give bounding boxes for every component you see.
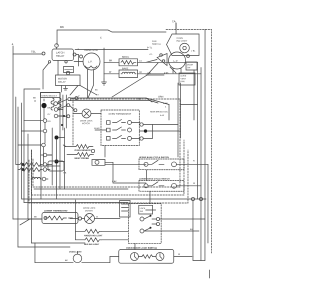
relay K1 box xyxy=(52,49,74,61)
wire thermostat bottom drop xyxy=(104,145,106,157)
clock motor left xyxy=(130,253,138,261)
svg-text:A-W: A-W xyxy=(160,114,164,117)
cooling fan terminal xyxy=(187,55,190,58)
lock pins right xyxy=(156,217,159,220)
svg-text:OVEN SENSOR: OVEN SENSOR xyxy=(74,150,90,152)
wire sensor leads xyxy=(65,146,77,154)
wire diagonal fan to selector xyxy=(80,85,97,95)
lock switch dashed box xyxy=(128,204,161,244)
lower thermostat box xyxy=(42,212,78,223)
door lock motor 2 xyxy=(84,213,94,223)
selector coil 1 xyxy=(51,98,54,110)
svg-text:W-BR: W-BR xyxy=(94,128,100,130)
right tick mark xyxy=(208,270,210,278)
svg-text:TBL: TBL xyxy=(31,49,36,53)
wire bottom resistor leads xyxy=(75,231,128,240)
wire bottom left run xyxy=(31,242,84,244)
selector stubs xyxy=(44,99,65,162)
left bus 6 xyxy=(27,134,29,219)
svg-text:A-BK: A-BK xyxy=(163,102,168,105)
relay K1 top pin xyxy=(55,44,59,48)
long wire 198 xyxy=(21,198,206,200)
clock leads xyxy=(138,256,155,258)
thermostat row 1 xyxy=(107,121,111,125)
svg-text:FAN: FAN xyxy=(152,40,157,43)
wire thermostat exits xyxy=(132,123,144,139)
drive motor M1 xyxy=(83,53,100,70)
wire right mid drop xyxy=(168,105,170,121)
oven light lamp xyxy=(73,254,82,263)
svg-text:BK: BK xyxy=(60,25,64,29)
svg-text:IND LIGHT: IND LIGHT xyxy=(177,41,188,43)
wire relay pin diagonal xyxy=(43,63,49,89)
lock contact 1 xyxy=(140,217,144,221)
lock contact 2 xyxy=(140,229,144,233)
svg-text:W: W xyxy=(96,216,98,218)
wire lock motor leads xyxy=(91,112,101,114)
svg-text:L-W: L-W xyxy=(147,73,151,75)
selector contact a xyxy=(54,102,58,106)
left resistor 2 xyxy=(20,167,43,171)
left coil 3 xyxy=(31,177,41,179)
wire thermostat left in xyxy=(95,129,107,131)
right dashed bus xyxy=(210,50,212,253)
svg-text:TA: TA xyxy=(172,20,176,24)
wire bus BR xyxy=(70,99,150,101)
svg-text:L-BK: L-BK xyxy=(112,181,117,183)
svg-text:RELAY: RELAY xyxy=(56,54,65,58)
wire relay pin down xyxy=(57,60,59,74)
svg-text:DOOR LOCK: DOOR LOCK xyxy=(83,208,96,210)
clock resistor xyxy=(142,255,153,259)
thermostat row 2 xyxy=(107,128,111,132)
svg-text:OVEN LIGHT: OVEN LIGHT xyxy=(69,251,82,253)
wire left drop to motor xyxy=(74,200,76,219)
relay coil box xyxy=(48,161,64,171)
broil resistor xyxy=(121,61,136,65)
wire long 189 xyxy=(34,188,128,190)
svg-text:LOWER THERMOSTAT: LOWER THERMOSTAT xyxy=(44,209,68,212)
bus junctions xyxy=(191,197,194,200)
oven sensor resistor 1 xyxy=(76,144,91,148)
wire left feed xyxy=(13,46,42,54)
lower thermostat resistor xyxy=(45,216,73,220)
switch box small xyxy=(64,66,74,72)
heat resistor bottom 2 xyxy=(85,238,101,242)
wire lamp right xyxy=(82,256,110,262)
lock switch inner box xyxy=(139,205,153,214)
wire resistor links xyxy=(46,164,52,179)
sensor terminal xyxy=(91,149,94,152)
wire fan triangle xyxy=(157,54,167,66)
selector label box xyxy=(41,92,61,97)
upper bake cycle switch row 1 xyxy=(139,159,184,170)
long wire 202 xyxy=(24,201,128,203)
svg-text:LOWER BAKE CYCLE SWITCH: LOWER BAKE CYCLE SWITCH xyxy=(139,178,170,181)
svg-text:UPPER BAKE CYCLE SWITCH: UPPER BAKE CYCLE SWITCH xyxy=(139,156,170,159)
clock motor right xyxy=(156,253,164,261)
node junction dot xyxy=(41,103,46,108)
wire top heat feed xyxy=(75,48,148,50)
motor left pin xyxy=(80,55,83,58)
svg-text:GRN: GRN xyxy=(158,96,164,99)
svg-text:P-TL: P-TL xyxy=(147,47,153,50)
svg-text:AMBER IND LIGHT: AMBER IND LIGHT xyxy=(84,234,103,237)
svg-text:OVEN SELECT: OVEN SELECT xyxy=(42,95,58,97)
selector contact f xyxy=(55,135,59,139)
selector right contacts xyxy=(68,98,71,101)
selector contact h xyxy=(54,159,58,163)
heat resistor bottom 1 xyxy=(85,229,101,233)
relay K1 left pin xyxy=(42,52,45,55)
lock motor 2 pins xyxy=(78,217,81,220)
right bus 5 xyxy=(192,201,194,257)
selector switch outline xyxy=(40,92,60,166)
bake unit box xyxy=(119,70,138,78)
selector vertical wires xyxy=(62,95,64,130)
wire lamp run xyxy=(35,243,73,263)
node L1 bus xyxy=(103,48,105,79)
wire top dashed to right bus xyxy=(166,30,212,51)
door lock motor M3 xyxy=(82,109,91,118)
left bus 3 xyxy=(17,107,19,247)
medium dashed frame xyxy=(31,140,184,195)
broil unit box xyxy=(119,59,138,66)
svg-text:L.P.: L.P. xyxy=(174,59,179,63)
right bus 1 xyxy=(196,62,198,199)
svg-text:LOCK: LOCK xyxy=(140,208,146,210)
svg-text:SW: SW xyxy=(187,67,190,69)
selector contact b xyxy=(54,108,58,112)
wire bake leads xyxy=(104,73,119,75)
right bus 4 xyxy=(207,164,209,243)
polygon feed xyxy=(175,23,177,34)
svg-text:MOTOR: MOTOR xyxy=(82,123,90,125)
anti-tip lamp xyxy=(180,43,190,53)
right info box 2 xyxy=(179,73,195,85)
svg-text:SWITCH: SWITCH xyxy=(152,44,161,46)
motor relay top pin xyxy=(66,71,69,74)
svg-text:L.P.: L.P. xyxy=(88,59,93,63)
left bus 4 xyxy=(20,103,22,198)
right bus 3 xyxy=(204,30,206,261)
svg-text:4-BK: 4-BK xyxy=(164,73,169,75)
svg-text:SW: SW xyxy=(140,211,143,213)
tall narrow box TOD xyxy=(120,201,131,218)
clock box xyxy=(119,250,174,264)
svg-text:MEAT PROBE: MEAT PROBE xyxy=(74,157,89,160)
selector contact d xyxy=(43,119,47,123)
switch arms xyxy=(57,99,67,103)
wire bus Y xyxy=(70,98,169,105)
selector contact e xyxy=(43,129,47,133)
wire box bottom drop xyxy=(61,85,63,92)
ground G2 xyxy=(64,86,68,90)
relay K1 bottom pins xyxy=(48,61,50,63)
oven thermostat dashed box xyxy=(101,110,139,146)
oven sensor resistor 2 xyxy=(77,152,92,156)
row2 exit wire xyxy=(184,185,201,187)
motor brushes xyxy=(85,66,97,68)
wire motor drop xyxy=(173,69,181,74)
big dashed frame xyxy=(33,99,180,187)
lower bake cycle switch row 2 xyxy=(139,181,184,192)
selector coil 2 xyxy=(58,98,61,110)
wire broil leads xyxy=(104,61,119,63)
relay K1 right pin xyxy=(73,53,76,56)
selector contact g xyxy=(42,143,46,147)
svg-text:FAN: FAN xyxy=(181,80,185,83)
left elbow wire xyxy=(24,89,40,203)
svg-text:OVEN: OVEN xyxy=(181,76,187,78)
svg-text:RED IND LIGHT: RED IND LIGHT xyxy=(84,244,100,246)
svg-text:BROIL: BROIL xyxy=(122,56,130,59)
outer dashed frame bottom xyxy=(29,150,188,203)
right bus 2 xyxy=(200,68,202,261)
selector wires inner xyxy=(43,108,45,164)
svg-text:OVEN THERMOSTAT: OVEN THERMOSTAT xyxy=(109,113,132,116)
left bus 1 xyxy=(12,54,14,219)
thermostat row 3 xyxy=(107,136,111,140)
fan terminals xyxy=(160,54,163,57)
svg-text:OVEN: OVEN xyxy=(177,38,184,40)
ground G1 xyxy=(102,79,107,85)
svg-text:BK: BK xyxy=(109,59,113,62)
thermostat right pins xyxy=(140,123,143,126)
motor relay box xyxy=(56,75,81,86)
svg-text:BAKE: BAKE xyxy=(122,67,129,70)
svg-text:HIGH SPEED FAN: HIGH SPEED FAN xyxy=(150,111,168,114)
wire TA drop xyxy=(175,23,177,29)
left bus 7 xyxy=(30,150,32,243)
wire lt feed xyxy=(28,218,42,220)
bake coil xyxy=(121,72,136,74)
svg-text:DOOR: DOOR xyxy=(187,64,194,66)
left bus 2 xyxy=(16,97,20,165)
svg-text:RELAY: RELAY xyxy=(58,81,66,84)
wire bottom right bus xyxy=(193,257,205,261)
svg-text:VENT: VENT xyxy=(181,78,187,80)
probe jack box xyxy=(92,159,105,165)
anti-tip switch polygon xyxy=(167,34,200,56)
lock wires xyxy=(144,210,161,231)
svg-text:MOTOR: MOTOR xyxy=(85,210,93,212)
wire top L1 run xyxy=(57,30,166,45)
fan motor M2 xyxy=(169,52,186,69)
svg-text:C: C xyxy=(100,36,102,39)
left resistor 1 xyxy=(20,162,43,166)
wire probe jog xyxy=(105,162,146,183)
selector contact c xyxy=(54,114,58,118)
wire motor bottom drops xyxy=(87,69,89,98)
vertical pair mid right xyxy=(177,83,179,157)
row1 exit wire xyxy=(184,163,208,165)
right info box 1 xyxy=(186,62,197,70)
